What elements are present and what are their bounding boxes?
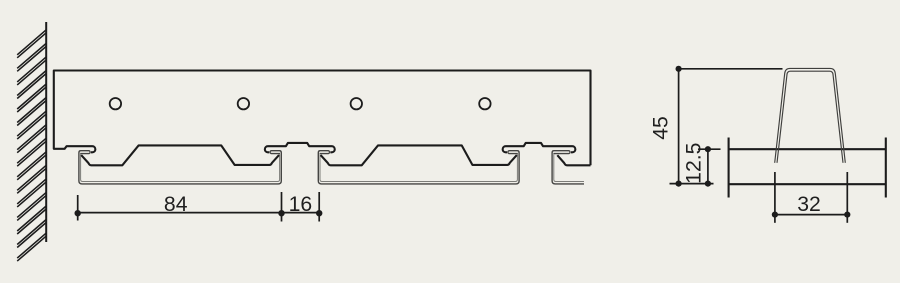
svg-text:84: 84 <box>164 193 188 216</box>
svg-text:32: 32 <box>797 193 821 216</box>
svg-text:16: 16 <box>289 193 313 216</box>
svg-text:12.5: 12.5 <box>683 143 706 184</box>
svg-text:45: 45 <box>650 116 673 140</box>
